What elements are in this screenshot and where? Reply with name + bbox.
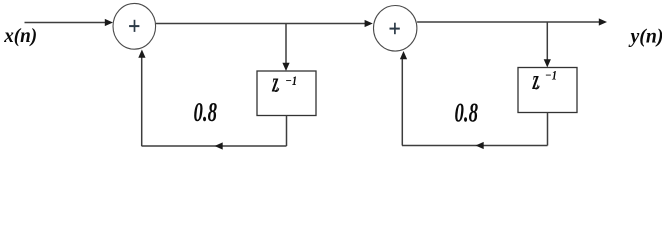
svg-text:z: z — [532, 64, 539, 95]
svg-text:z: z — [272, 67, 279, 98]
svg-text:x(n): x(n) — [3, 26, 37, 47]
svg-text:0.8: 0.8 — [194, 97, 218, 127]
svg-text:y(n): y(n) — [628, 27, 662, 48]
svg-text:0.8: 0.8 — [455, 98, 479, 128]
svg-text:−1: −1 — [545, 68, 557, 83]
svg-text:−1: −1 — [285, 73, 297, 88]
